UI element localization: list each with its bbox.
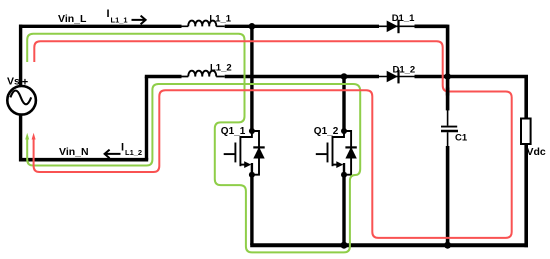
- diode D1_2: [387, 70, 399, 84]
- transistor Q1_1: [224, 23, 265, 178]
- svg-text:D1_2: D1_2: [393, 65, 416, 76]
- svg-text:Q1_1: Q1_1: [221, 126, 246, 137]
- svg-text:C1: C1: [455, 133, 468, 144]
- svg-text:Vin_L: Vin_L: [58, 13, 87, 25]
- wire: black patch where output node wire covers red jog: [446, 88, 450, 96]
- current loop green (Q1_1 conduction path): [27, 34, 360, 253]
- svg-text:Q1_2: Q1_2: [314, 126, 339, 137]
- transistor Q1_2: [316, 73, 357, 178]
- wire: second line to L1_2: [145, 75, 182, 78]
- arrow I_L1_1 direction right: [132, 16, 146, 25]
- node: junction dot output node: [444, 73, 451, 80]
- ac source Vs: [7, 25, 36, 162]
- arrow red current return into source: [32, 133, 36, 140]
- inductor L1_1: [188, 21, 216, 27]
- svg-text:D1_1: D1_1: [392, 13, 415, 24]
- wire: second line L1_2 to D1_2: [225, 75, 379, 78]
- wire: top line D1_1 to output corner, down to node: [415, 25, 448, 77]
- label current I_L1_2: [121, 142, 142, 158]
- svg-text:L1_2: L1_2: [210, 62, 232, 73]
- wire: second line D1_2 to right corner, down to load: [415, 75, 527, 120]
- arrow I_L1_2 direction left: [105, 150, 121, 159]
- wire: bottom Vin_N line: [19, 158, 148, 162]
- svg-text:Vs: Vs: [7, 75, 20, 87]
- wire: top line from L1_1 to D1_1: [225, 25, 379, 28]
- node: junction dot Q1_2 source on rail: [341, 242, 348, 249]
- wire: top line Vin_L from source to L1_1: [19, 25, 182, 28]
- wire: D1_1 thin leads: [379, 25, 415, 27]
- diode D1_1: [387, 20, 399, 34]
- svg-text:L1_2: L1_2: [125, 148, 142, 157]
- node: junction dot C1 bottom on rail: [444, 242, 451, 249]
- svg-text:Vin_N: Vin_N: [59, 146, 89, 158]
- arrow green current return into source: [25, 133, 29, 140]
- wire: Q1_2 source to bottom rail: [342, 175, 345, 245]
- capacitor C1: [441, 77, 458, 246]
- svg-text:L1_1: L1_1: [209, 13, 231, 24]
- label current I_L1_1: [107, 8, 128, 25]
- inductor L1_2: [188, 71, 216, 77]
- svg-text:Vdc: Vdc: [527, 146, 546, 158]
- svg-text:L1_1: L1_1: [111, 16, 128, 25]
- svg-text:I: I: [121, 142, 124, 154]
- resistor load Vdc: [521, 119, 531, 248]
- svg-text:I: I: [107, 8, 110, 20]
- wire: second line vertical from Vin_N corner up to L1_2: [145, 77, 148, 160]
- wire: D1_2 thin leads: [379, 76, 415, 78]
- current loop red (D1_1 / output path): [34, 41, 512, 238]
- wire: Q1_1 source to bottom rail: [250, 175, 253, 245]
- svg-text:+: +: [22, 76, 28, 88]
- wire: bottom rail: [250, 243, 528, 247]
- wire: L1_2 thin leads: [182, 76, 225, 78]
- wire: L1_1 thin leads: [182, 25, 225, 27]
